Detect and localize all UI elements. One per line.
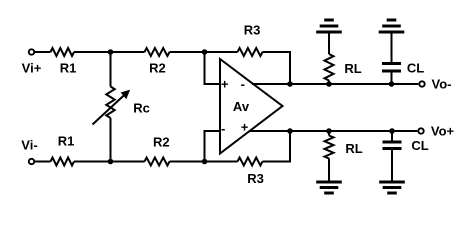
resistor R1 (top) xyxy=(51,48,75,56)
svg-text:R3: R3 xyxy=(247,171,264,186)
junction node A (R1/R2/Rc top) xyxy=(108,49,114,55)
svg-text:R2: R2 xyxy=(149,61,166,76)
terminal Vo- xyxy=(419,81,424,86)
junction CL top on Vo- xyxy=(389,81,395,87)
terminal Vo+ xyxy=(418,128,423,133)
wire op-amp out+ to Vo+ xyxy=(249,130,417,132)
junction R3 top feedback on Vo- xyxy=(287,81,293,87)
resistor RL (bottom) xyxy=(325,131,334,181)
capacitor CL (top) xyxy=(382,33,401,84)
svg-text:R1: R1 xyxy=(58,134,75,149)
variable resistor Rc xyxy=(93,52,131,162)
terminal Vi+ xyxy=(29,49,34,54)
junction node D (R2/R3/-in) xyxy=(202,159,208,165)
resistor R2 (bottom) xyxy=(145,158,170,166)
op-amp U1 (Av) xyxy=(220,59,283,154)
junction RL top on Vo- xyxy=(326,81,332,87)
svg-text:R2: R2 xyxy=(153,135,170,150)
wire R1 to node A xyxy=(74,51,145,53)
svg-text:Vi+: Vi+ xyxy=(22,61,42,76)
wire op-amp out- to Vo- xyxy=(252,83,418,85)
wire Vi- to R1 xyxy=(35,161,51,163)
ground (below CL bottom) xyxy=(379,182,405,193)
svg-text:Vi-: Vi- xyxy=(21,138,37,153)
svg-text:Rc: Rc xyxy=(133,101,150,116)
svg-text:+: + xyxy=(241,119,249,134)
wire Vi+ to R1 xyxy=(35,51,51,53)
junction node C (R1/R2/Rc bottom) xyxy=(108,159,114,165)
svg-text:RL: RL xyxy=(345,141,362,156)
ground (inverted, above RL top) xyxy=(316,20,342,32)
capacitor CL (bottom) xyxy=(383,131,402,181)
junction node B (R2/R3/+in) xyxy=(202,49,208,55)
resistor R3 (bottom) xyxy=(238,158,263,166)
svg-text:Vo-: Vo- xyxy=(432,77,452,92)
junction CL bottom on Vo+ xyxy=(389,128,395,134)
wire R2 to node B xyxy=(170,51,238,53)
wire node D to op-amp -in xyxy=(205,131,221,162)
junction RL bottom on Vo+ xyxy=(326,128,332,134)
ground (inverted, above CL top) xyxy=(379,20,405,32)
svg-text:RL: RL xyxy=(344,61,361,76)
svg-text:Av: Av xyxy=(233,99,250,114)
svg-text:-: - xyxy=(221,121,225,136)
resistor R1 (bottom) xyxy=(51,158,75,166)
svg-text:-: - xyxy=(241,77,245,92)
wire R2 to node D xyxy=(170,161,238,163)
wire R1 to node C xyxy=(74,161,145,163)
wire R3 top to output Vo- xyxy=(263,52,291,84)
wire node B to op-amp +in xyxy=(205,52,221,84)
ground (below RL bottom) xyxy=(316,182,342,193)
svg-text:CL: CL xyxy=(407,61,424,76)
svg-text:CL: CL xyxy=(411,138,428,153)
svg-text:Vo+: Vo+ xyxy=(431,124,455,139)
wire R3 bottom to output Vo+ xyxy=(263,131,291,162)
junction R3 bottom feedback on Vo+ xyxy=(287,128,293,134)
resistor R3 (top) xyxy=(238,48,263,56)
svg-text:R1: R1 xyxy=(60,61,77,76)
svg-text:+: + xyxy=(221,77,229,92)
terminal Vi- xyxy=(29,159,34,164)
svg-text:R3: R3 xyxy=(244,23,261,38)
resistor R2 (top) xyxy=(145,48,170,56)
resistor RL (top) xyxy=(325,33,334,84)
